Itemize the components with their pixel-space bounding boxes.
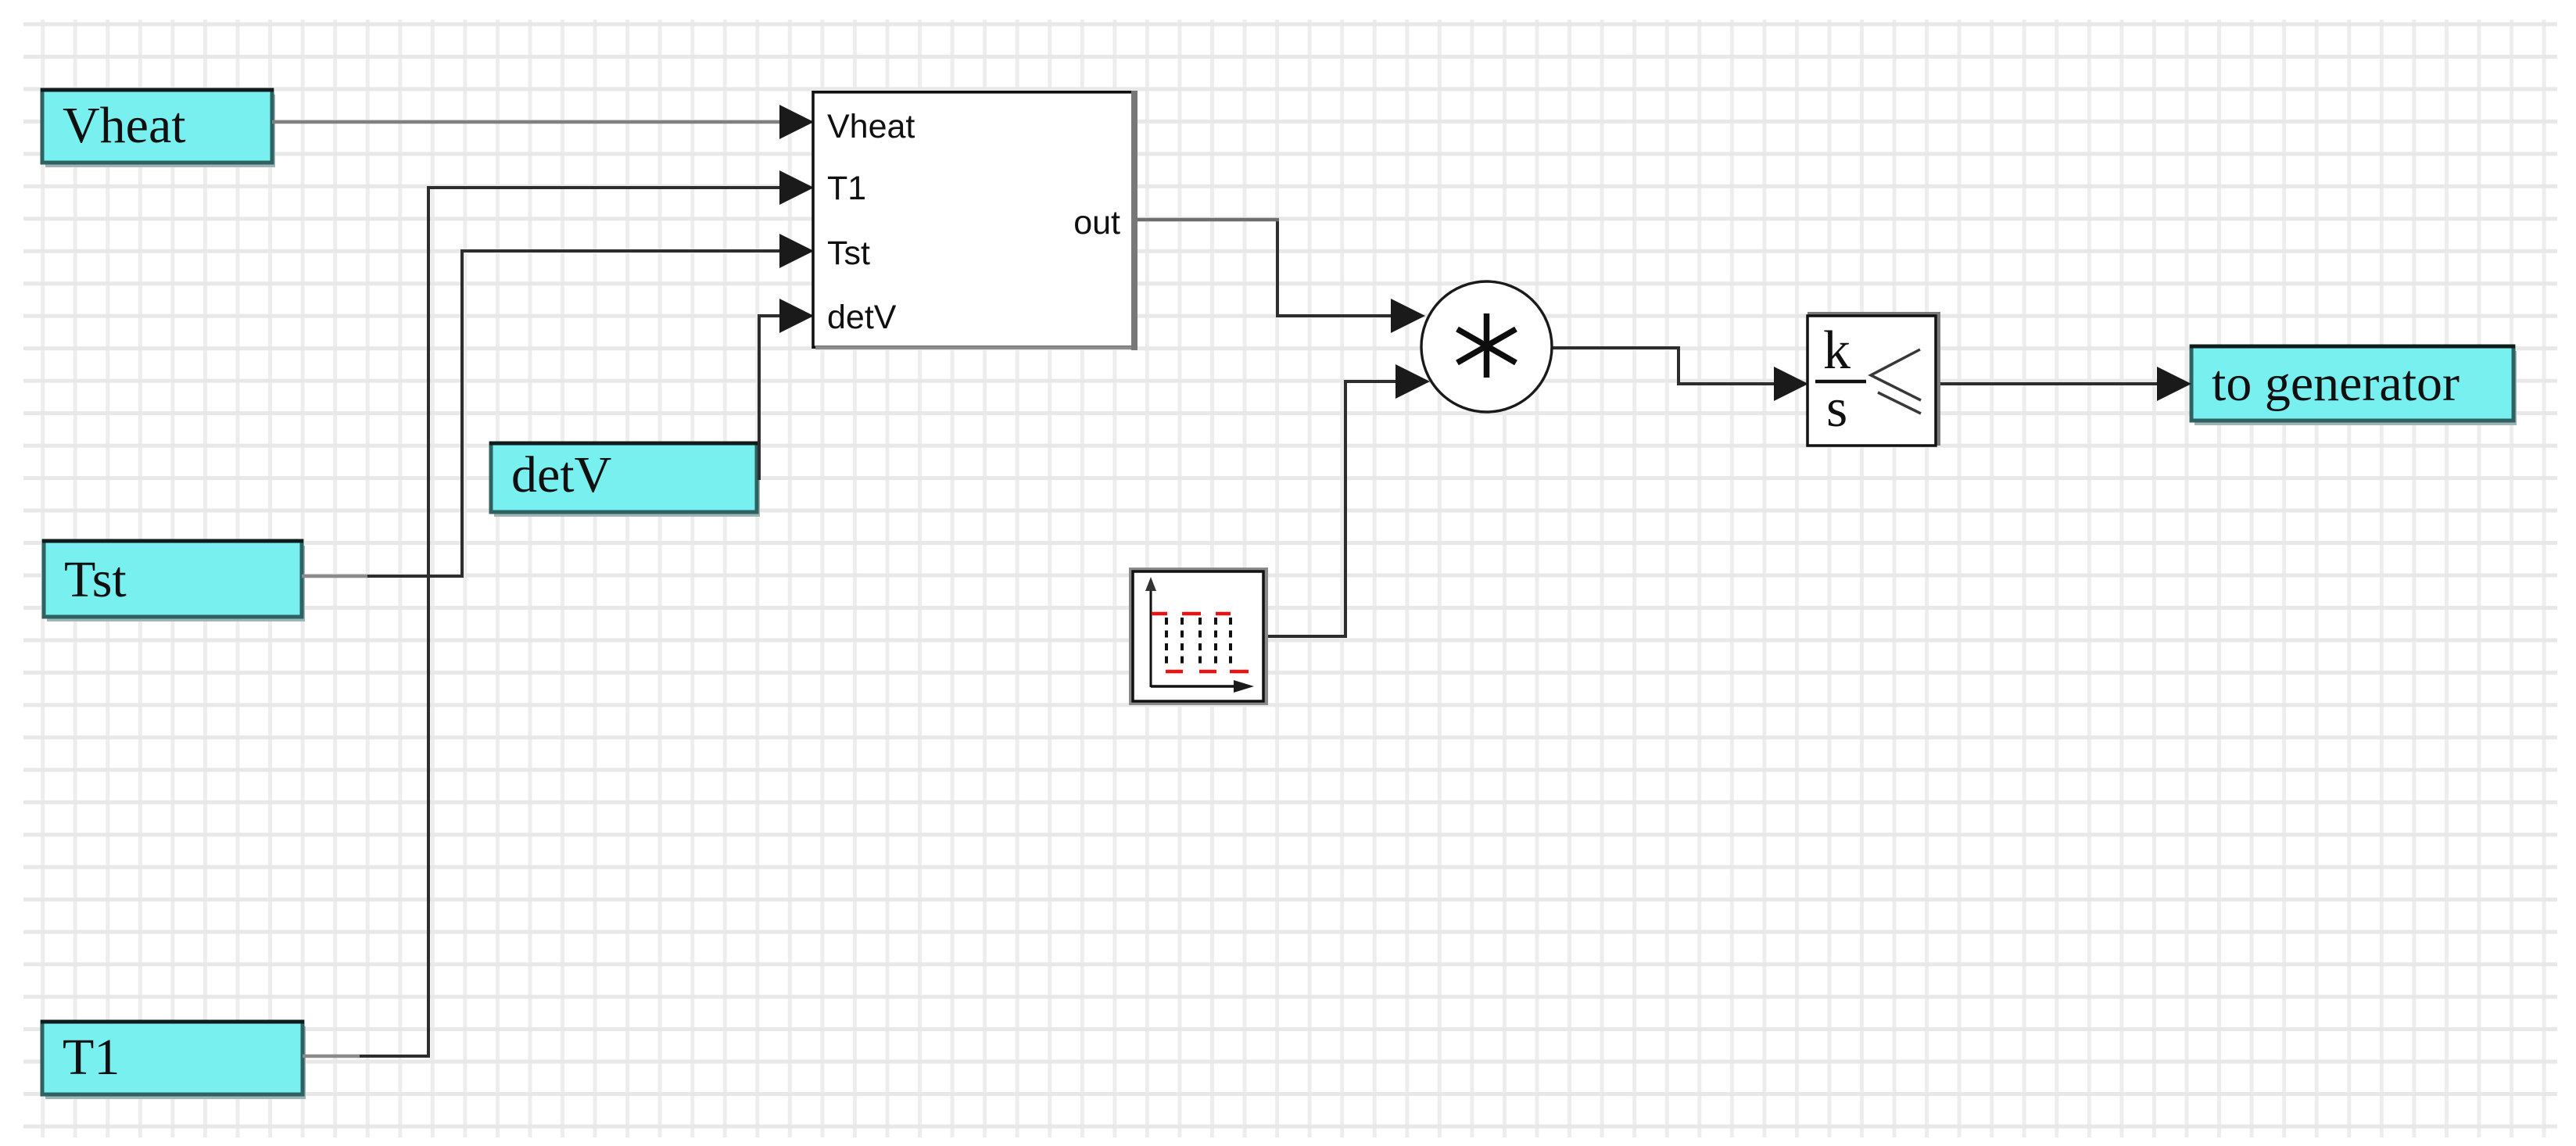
pulse icon square wave red high segments [1152, 612, 1231, 616]
wire out to multiplier [1277, 218, 1395, 316]
svg-text:Vheat: Vheat [827, 108, 915, 145]
arrowhead Tst port [779, 234, 814, 268]
wire gray segment at Tst box [302, 575, 367, 578]
arrowhead integrator input [1774, 367, 1808, 401]
wire Vheat to superblock input [272, 120, 782, 124]
wire detV to superblock input [759, 316, 783, 480]
multiplier block [1421, 281, 1552, 412]
wire Tst to superblock input [302, 251, 782, 576]
integrator fraction bar [1815, 380, 1866, 384]
integrator with saturation block [1807, 312, 1940, 446]
wire integrator to generator [1936, 382, 2159, 385]
input block Tst [42, 539, 305, 622]
wire multiplier to integrator [1551, 348, 1778, 384]
arrowhead Vheat port [779, 105, 814, 139]
wire gray segment at out port [1138, 218, 1279, 222]
pulse icon horizontal axis [1151, 685, 1240, 688]
integrator saturation symbol [1871, 349, 1921, 414]
svg-text:out: out [1073, 204, 1120, 242]
arrowhead multiplier input 2 [1395, 364, 1430, 399]
arrowhead multiplier input 1 [1391, 299, 1425, 333]
arrowhead to generator input [2157, 367, 2191, 401]
pulse icon vertical axis [1150, 585, 1152, 687]
svg-text:Tst: Tst [64, 551, 127, 608]
svg-text:k: k [1823, 321, 1850, 381]
superblock [813, 91, 1138, 350]
svg-text:T1: T1 [63, 1029, 120, 1086]
svg-text:T1: T1 [827, 170, 866, 207]
wire gray segment at T1 box [303, 1055, 360, 1058]
wire pulse generator to multiplier [1263, 381, 1398, 636]
svg-text:Tst: Tst [827, 235, 870, 272]
arrowhead T1 port [779, 170, 814, 205]
pulse icon dashed transitions [1166, 618, 1231, 669]
svg-text:to generator: to generator [2212, 355, 2460, 412]
input block Vheat [41, 88, 275, 168]
pulse icon square wave red low segments [1166, 670, 1249, 674]
wire T1 to superblock input [303, 188, 782, 1056]
svg-text:Vheat: Vheat [63, 97, 186, 154]
arrowhead detV port [779, 299, 814, 333]
svg-text:detV: detV [827, 299, 897, 336]
output block to generator [2190, 345, 2517, 426]
pulse generator block [1129, 568, 1268, 705]
svg-text:detV: detV [511, 446, 611, 503]
svg-text:s: s [1826, 378, 1847, 439]
input block detV [489, 442, 760, 517]
multiplier asterisk [1457, 313, 1516, 378]
input block T1 [41, 1020, 306, 1100]
